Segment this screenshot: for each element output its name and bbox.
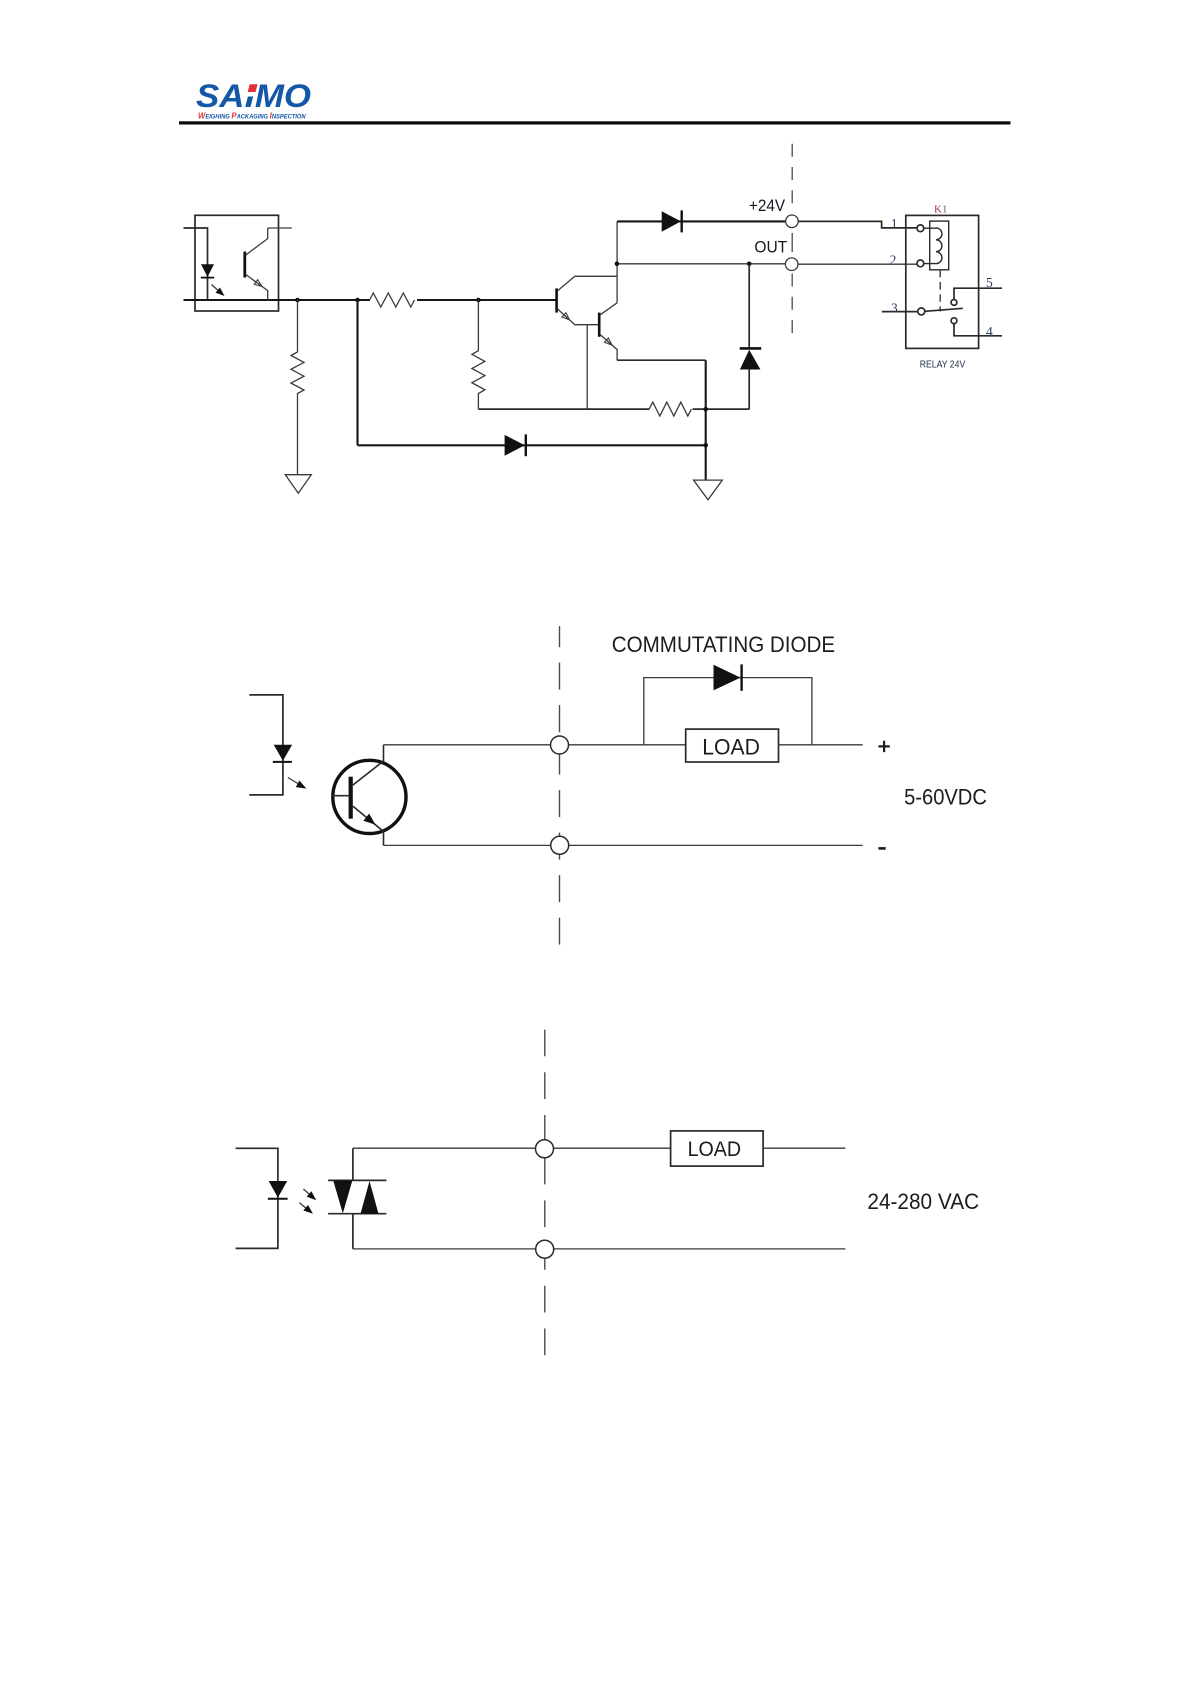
svg-text:RELAY 24V: RELAY 24V: [920, 360, 966, 371]
svg-text:2: 2: [890, 252, 897, 267]
svg-text:LOAD: LOAD: [688, 1138, 742, 1161]
svg-text:1: 1: [891, 216, 898, 231]
svg-text:WEIGHING PACKAGING INSPECTION: WEIGHING PACKAGING INSPECTION: [198, 111, 306, 120]
svg-text:4: 4: [986, 324, 993, 339]
svg-text:SA: SA: [196, 79, 244, 114]
svg-text:LOAD: LOAD: [702, 734, 760, 759]
svg-text:OUT: OUT: [754, 238, 787, 256]
svg-text:MO: MO: [255, 79, 311, 114]
svg-text:K1: K1: [934, 204, 947, 216]
svg-text:COMMUTATING DIODE: COMMUTATING DIODE: [612, 632, 835, 657]
svg-text:5: 5: [986, 275, 993, 290]
svg-text:+24V: +24V: [749, 197, 785, 215]
svg-text:3: 3: [891, 300, 898, 315]
svg-text:5-60VDC: 5-60VDC: [904, 784, 987, 809]
svg-text:24-280 VAC: 24-280 VAC: [867, 1189, 979, 1214]
